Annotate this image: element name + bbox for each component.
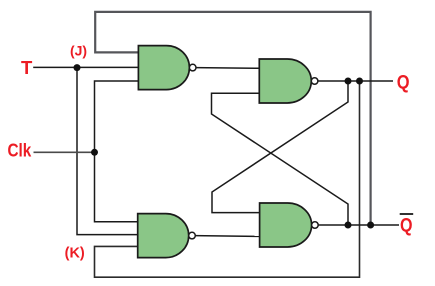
wire: Qbar output line [318, 224, 399, 226]
svg-text:(J): (J) [70, 43, 87, 59]
junction dot: Qbar node (top loop) [367, 222, 374, 229]
junction dot: Q node (bottom loop) [356, 78, 363, 85]
junction dot: Clk node [91, 149, 98, 156]
NAND gate U4 (bottom-right, 2-input) [260, 203, 319, 247]
NAND gate U3 (top-right, 2-input) [259, 59, 318, 103]
junction dot: Qbar node (cross feedback) [345, 222, 352, 229]
wire: Qbar-to-J top feedback loop [95, 12, 370, 225]
wire: Clk input [34, 151, 95, 153]
svg-text:(K): (K) [65, 246, 85, 262]
svg-text:T: T [21, 57, 33, 78]
wire: cross feedback Qbar to U3 bottom input [212, 93, 349, 225]
wire: T input [33, 66, 138, 68]
overbar of Qbar [400, 213, 414, 215]
junction dot: Q node (cross feedback) [345, 78, 352, 85]
wire: U2 output to U4 input [195, 235, 259, 238]
wire: Q output line [318, 80, 393, 82]
wire: Clk branch to top gate [95, 81, 139, 152]
svg-text:Clk: Clk [8, 139, 32, 160]
svg-text:Q: Q [400, 215, 413, 236]
wire: U1 output to U3 input [196, 67, 259, 70]
wire: T branch to bottom gate [77, 68, 138, 235]
NAND gate U1 (top-left, 3-input) [138, 46, 196, 90]
junction dot: T node [74, 64, 81, 71]
wire: cross feedback Q to U4 top input [212, 81, 348, 213]
NAND gate U2 (bottom-left, 3-input) [138, 214, 196, 258]
wire: Q-to-K bottom feedback loop [95, 81, 360, 277]
wire: Clk branch to bottom gate [95, 152, 138, 222]
svg-text:Q: Q [397, 73, 410, 94]
